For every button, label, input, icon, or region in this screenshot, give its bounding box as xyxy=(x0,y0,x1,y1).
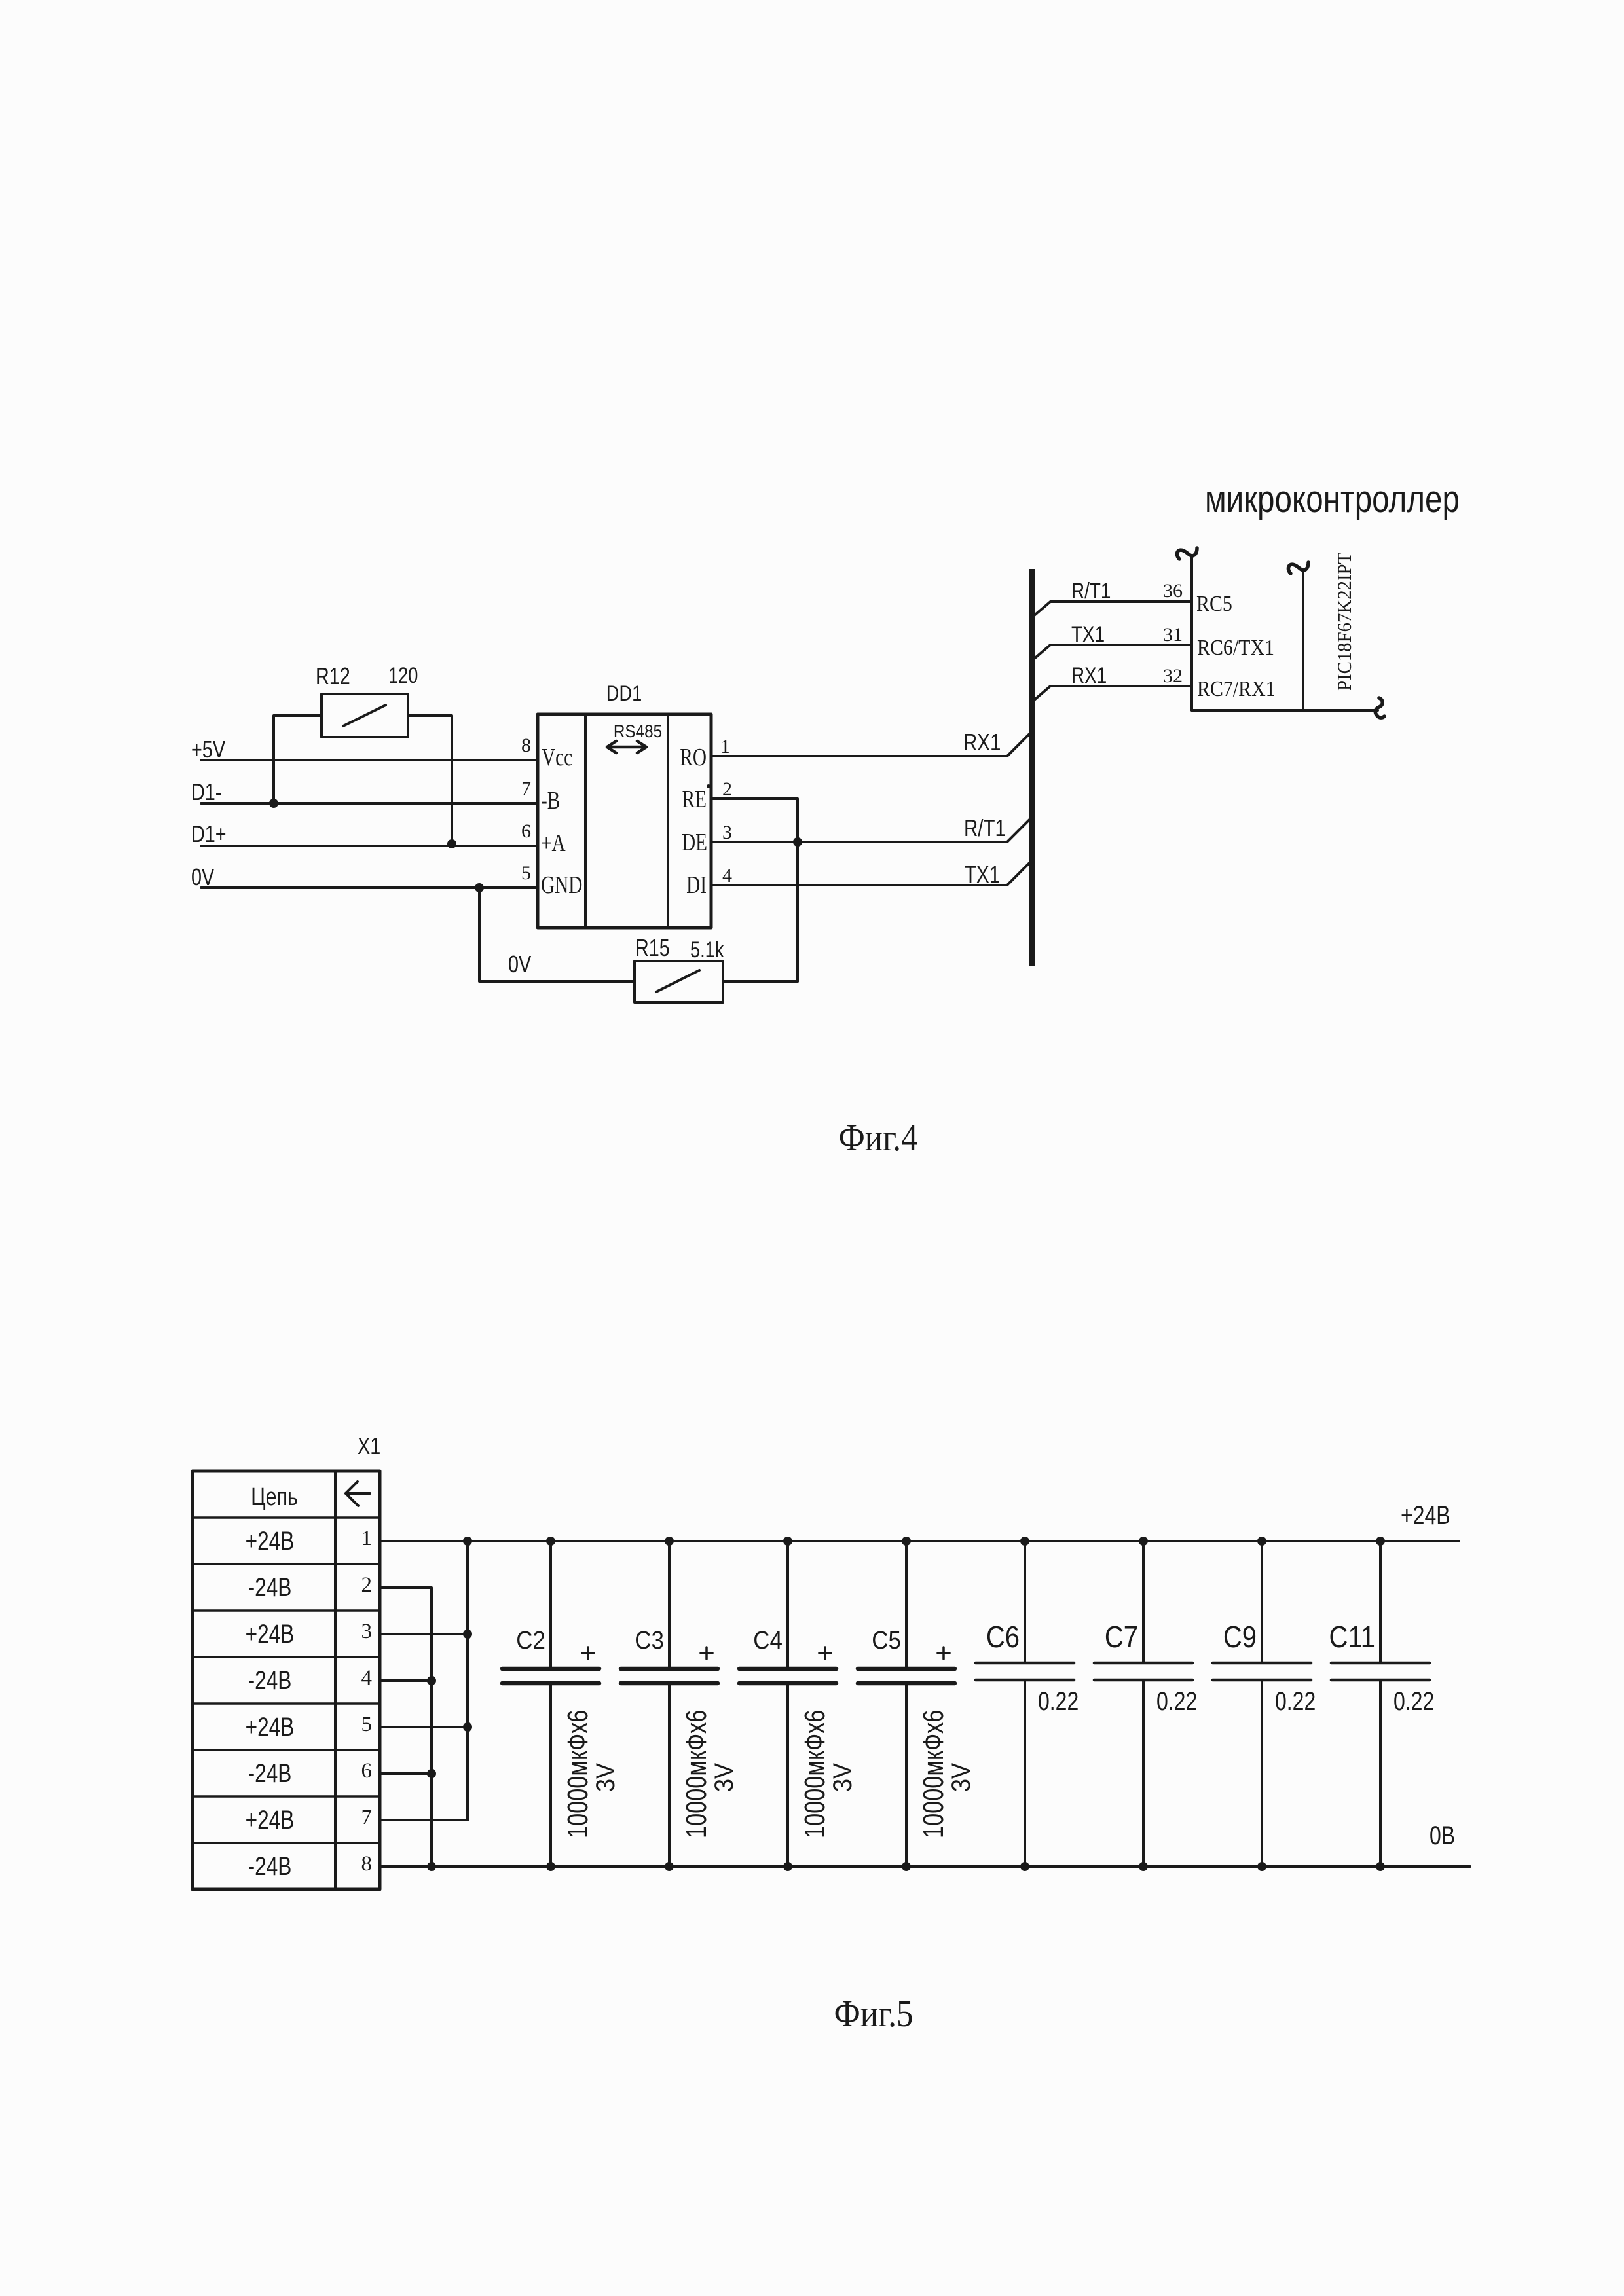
svg-text:6: 6 xyxy=(521,820,531,842)
svg-text:TX1: TX1 xyxy=(1071,621,1105,646)
svg-text:2: 2 xyxy=(722,778,732,800)
svg-text:Фиг.5: Фиг.5 xyxy=(834,1992,913,2035)
svg-text:D1+: D1+ xyxy=(191,820,227,847)
svg-text:C2: C2 xyxy=(516,1626,545,1654)
svg-text:+24В: +24В xyxy=(246,1618,295,1648)
svg-text:D1-: D1- xyxy=(191,778,221,805)
svg-text:120: 120 xyxy=(388,663,418,688)
svg-text:4: 4 xyxy=(722,865,732,886)
svg-text:RX1: RX1 xyxy=(963,729,1001,755)
svg-text:RO: RO xyxy=(680,744,707,771)
svg-text:R/T1: R/T1 xyxy=(1071,578,1111,603)
svg-text:RX1: RX1 xyxy=(1071,663,1107,687)
svg-text:+24В: +24В xyxy=(1401,1501,1450,1530)
svg-text:+A: +A xyxy=(541,830,566,857)
svg-text:DD1: DD1 xyxy=(606,682,642,706)
svg-text:10000мкФх6: 10000мкФх6 xyxy=(562,1710,594,1838)
svg-text:+24В: +24В xyxy=(246,1711,295,1741)
svg-text:C6: C6 xyxy=(986,1620,1020,1654)
svg-text:2: 2 xyxy=(361,1573,373,1597)
svg-text:+5V: +5V xyxy=(191,736,225,763)
svg-text:RC7/RX1: RC7/RX1 xyxy=(1197,676,1276,701)
svg-text:10000мкФх6: 10000мкФх6 xyxy=(680,1710,712,1838)
svg-text:RE: RE xyxy=(682,786,707,813)
svg-text:5.1k: 5.1k xyxy=(690,937,724,962)
svg-text:32: 32 xyxy=(1163,665,1183,687)
svg-text:C7: C7 xyxy=(1105,1620,1138,1654)
svg-text:8: 8 xyxy=(521,735,531,756)
svg-text:R12: R12 xyxy=(316,663,350,689)
svg-text:DI: DI xyxy=(686,872,707,899)
svg-text:R15: R15 xyxy=(635,934,670,961)
svg-text:-24В: -24В xyxy=(248,1758,292,1787)
svg-text:C9: C9 xyxy=(1223,1620,1257,1654)
svg-text:8: 8 xyxy=(361,1852,373,1876)
svg-text:RC5: RC5 xyxy=(1196,591,1232,615)
svg-text:0.22: 0.22 xyxy=(1275,1686,1316,1716)
svg-text:31: 31 xyxy=(1163,624,1183,646)
svg-text:10000мкФх6: 10000мкФх6 xyxy=(917,1710,950,1838)
svg-text:0V: 0V xyxy=(191,864,214,890)
svg-text:+24В: +24В xyxy=(246,1525,295,1555)
svg-text:+24В: +24В xyxy=(246,1804,295,1834)
svg-text:3V: 3V xyxy=(947,1762,976,1792)
svg-text:3V: 3V xyxy=(828,1762,857,1792)
svg-text:микроконтроллер: микроконтроллер xyxy=(1205,479,1460,521)
svg-text:Фиг.4: Фиг.4 xyxy=(838,1116,917,1159)
svg-text:-24В: -24В xyxy=(248,1665,292,1694)
svg-text:36: 36 xyxy=(1163,580,1183,602)
svg-text:3: 3 xyxy=(361,1620,373,1643)
svg-text:RS485: RS485 xyxy=(614,722,662,741)
svg-text:0В: 0В xyxy=(1430,1821,1455,1850)
svg-text:RC6/TX1: RC6/TX1 xyxy=(1197,634,1274,659)
svg-text:Vcc: Vcc xyxy=(542,744,572,771)
svg-text:5: 5 xyxy=(361,1713,373,1736)
svg-text:GND: GND xyxy=(541,872,582,899)
svg-text:C5: C5 xyxy=(872,1626,901,1654)
svg-text:0.22: 0.22 xyxy=(1156,1686,1197,1716)
svg-text:5: 5 xyxy=(521,862,531,884)
svg-text:C4: C4 xyxy=(753,1626,783,1654)
svg-text:-24В: -24В xyxy=(248,1851,292,1880)
svg-text:7: 7 xyxy=(361,1806,373,1829)
svg-text:DE: DE xyxy=(682,829,707,856)
svg-text:0.22: 0.22 xyxy=(1393,1686,1434,1716)
svg-text:X1: X1 xyxy=(358,1432,380,1459)
svg-text:Цепь: Цепь xyxy=(251,1484,298,1511)
svg-text:6: 6 xyxy=(361,1759,373,1783)
svg-text:0V: 0V xyxy=(508,951,531,977)
svg-text:1: 1 xyxy=(361,1527,373,1550)
svg-text:3V: 3V xyxy=(710,1762,739,1792)
svg-text:1: 1 xyxy=(720,736,730,757)
svg-text:-24В: -24В xyxy=(248,1572,292,1601)
svg-text:C3: C3 xyxy=(635,1626,664,1654)
svg-text:0.22: 0.22 xyxy=(1038,1686,1079,1716)
svg-text:C11: C11 xyxy=(1329,1620,1375,1654)
svg-text:3V: 3V xyxy=(591,1762,620,1792)
svg-text:4: 4 xyxy=(361,1666,373,1690)
svg-text:R/T1: R/T1 xyxy=(964,814,1006,841)
svg-text:TX1: TX1 xyxy=(965,861,1000,887)
svg-text:10000мкФх6: 10000мкФх6 xyxy=(799,1710,831,1838)
svg-text:-B: -B xyxy=(541,788,560,814)
svg-text:7: 7 xyxy=(521,778,531,799)
svg-text:PIC18F67K22IPT: PIC18F67K22IPT xyxy=(1334,553,1356,691)
svg-text:3: 3 xyxy=(722,822,732,843)
